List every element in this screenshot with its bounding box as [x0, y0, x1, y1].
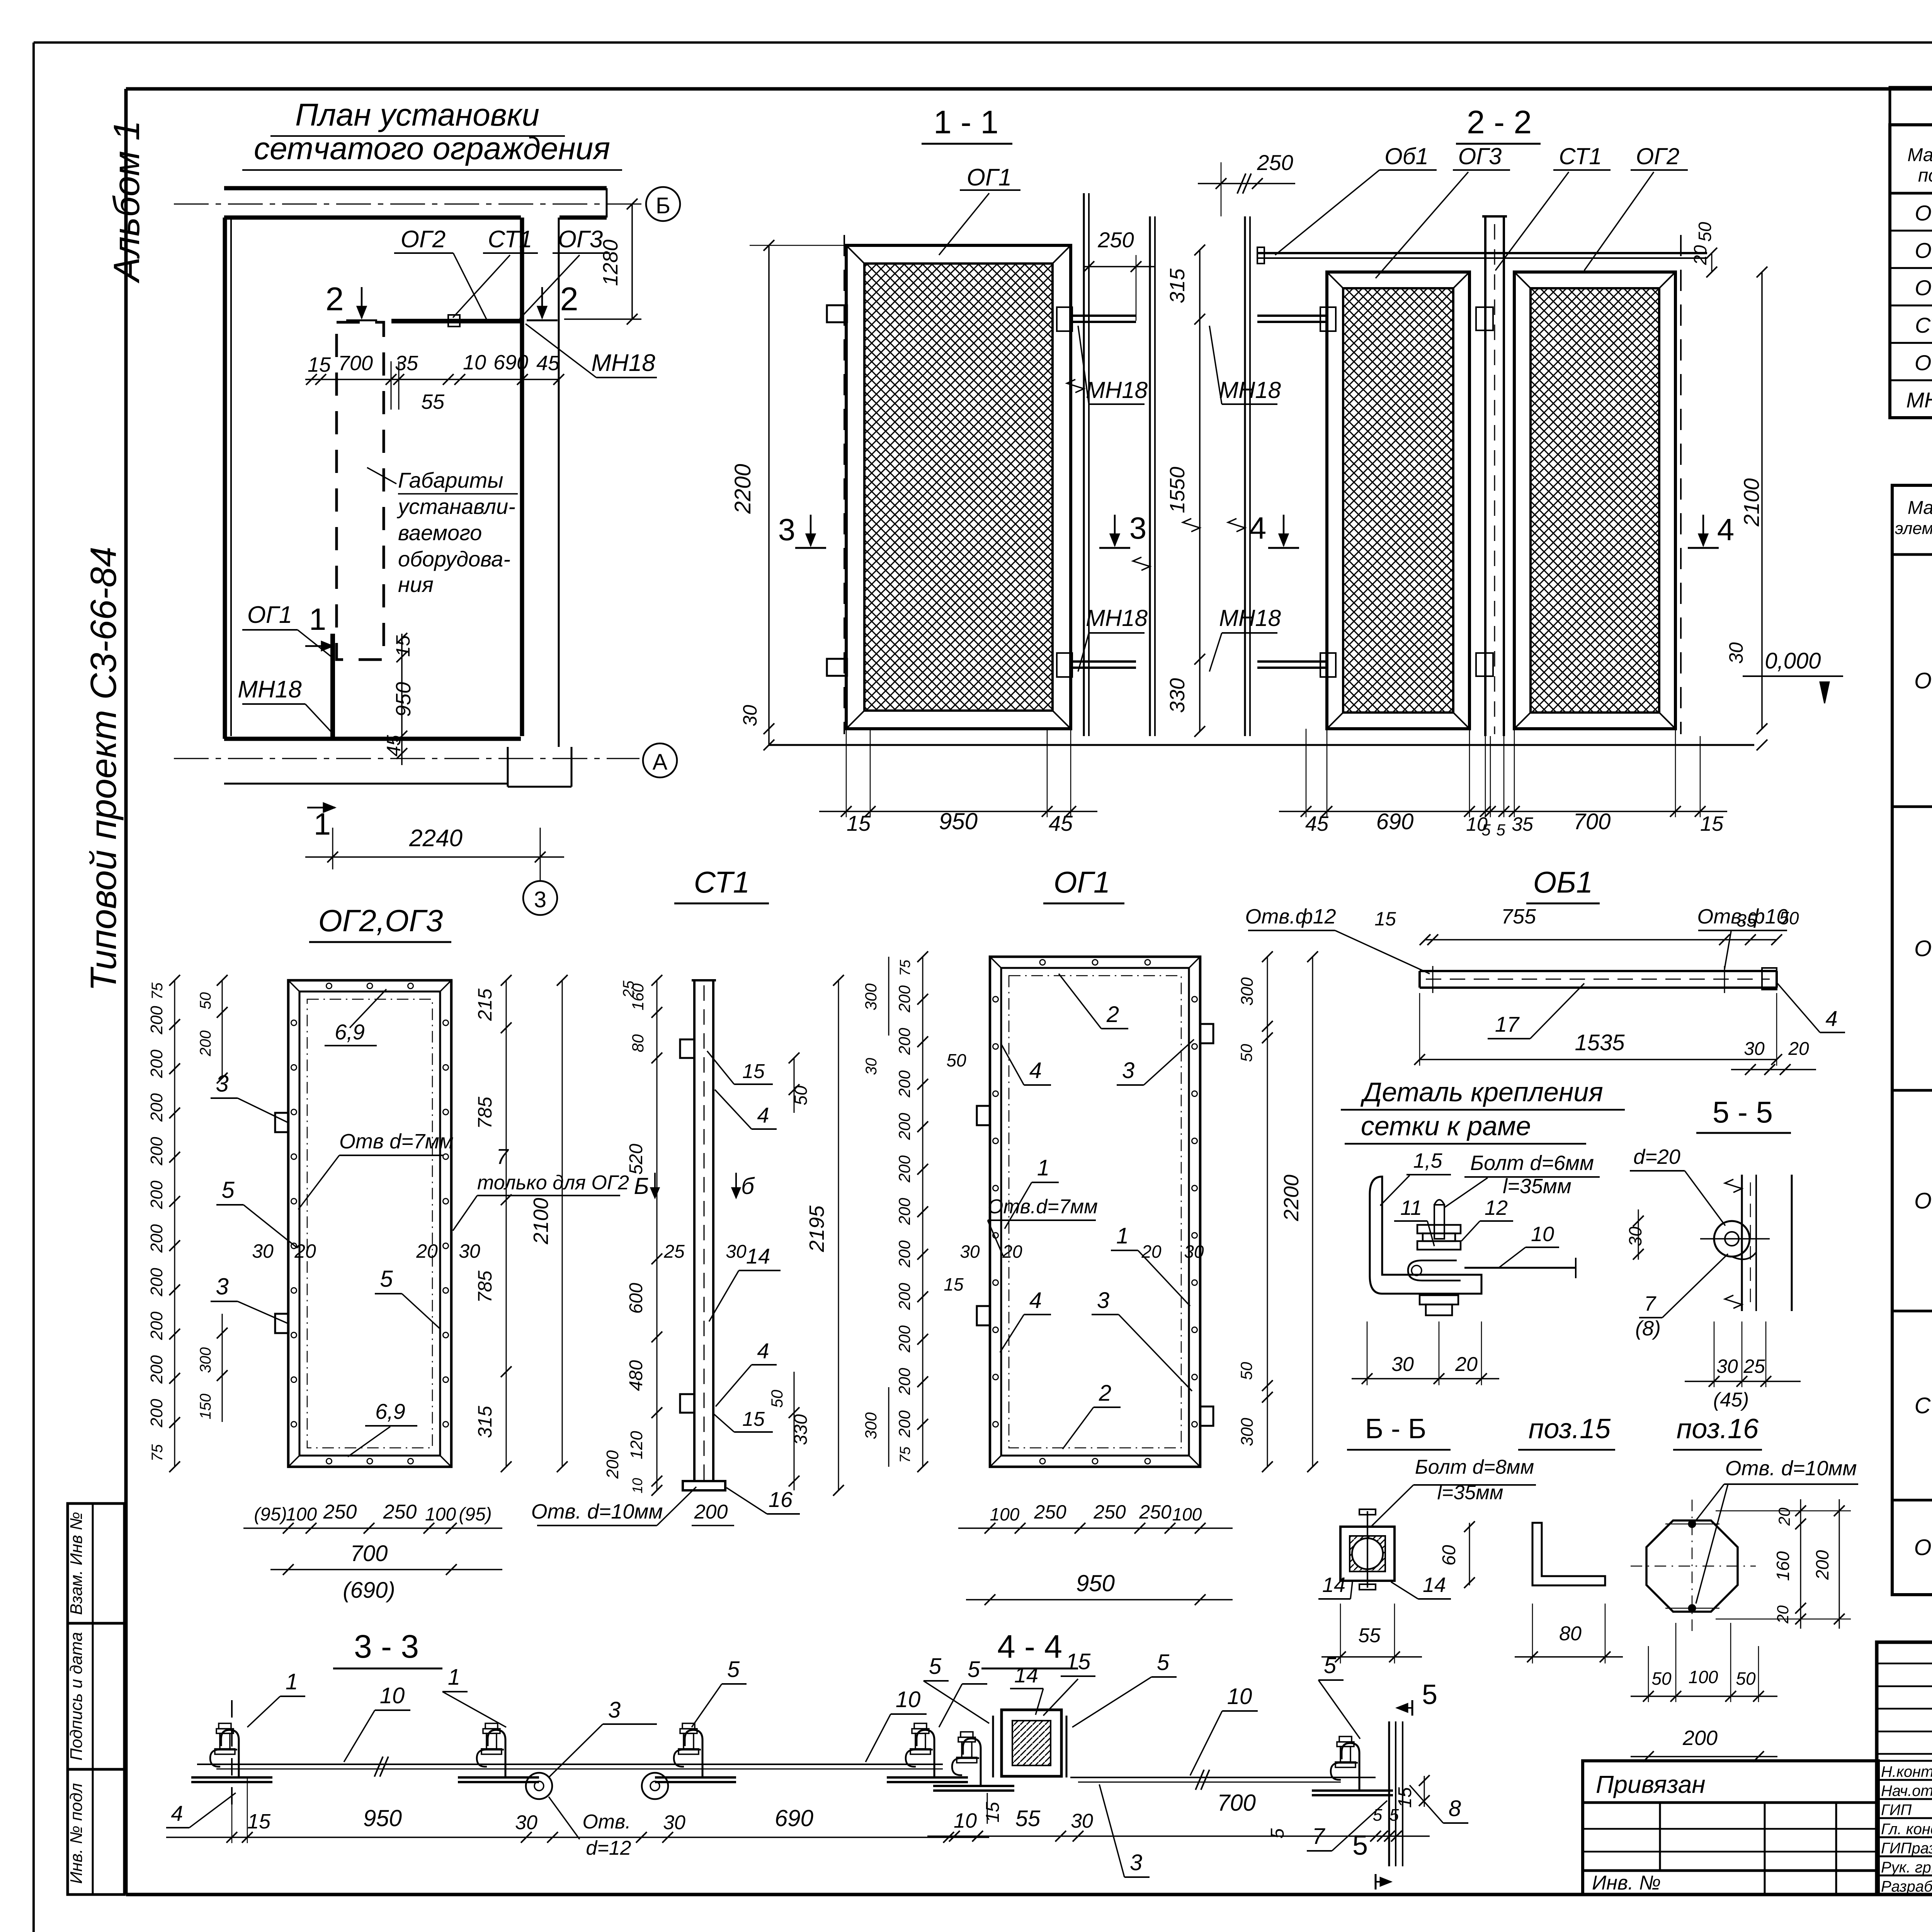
- svg-text:300: 300: [862, 1412, 880, 1439]
- svg-text:200: 200: [1812, 1550, 1832, 1580]
- svg-text:10: 10: [1227, 1684, 1252, 1709]
- svg-text:30: 30: [515, 1811, 537, 1834]
- ОГ1 bottom dims 100 250x3 100 950: [958, 1527, 1233, 1529]
- svg-text:5: 5: [929, 1654, 942, 1679]
- svg-text:ОГ2: ОГ2: [1914, 936, 1932, 961]
- ОБ1 bar body: [1420, 970, 1777, 972]
- svg-text:2200: 2200: [1280, 1175, 1303, 1221]
- svg-text:(690): (690): [343, 1578, 395, 1603]
- svg-text:МН18: МН18: [1219, 377, 1281, 403]
- svg-text:100: 100: [1689, 1667, 1718, 1687]
- svg-text:2100: 2100: [1739, 478, 1764, 527]
- svg-text:5 - 5: 5 - 5: [1713, 1095, 1773, 1129]
- svg-text:20: 20: [1690, 245, 1710, 265]
- svg-text:Гл. констр: Гл. констр: [1881, 1821, 1932, 1838]
- svg-text:Б: Б: [656, 193, 670, 218]
- svg-text:Отв.ф12: Отв.ф12: [1245, 905, 1336, 928]
- svg-text:ния: ния: [398, 572, 434, 597]
- title block upper small rows: [1877, 1663, 1932, 1665]
- svg-text:15: 15: [983, 1802, 1003, 1823]
- bottom dims 15 950 45 (1-1): [846, 729, 847, 817]
- svg-text:5: 5: [1157, 1650, 1170, 1675]
- svg-text:ОГ1: ОГ1: [1915, 201, 1932, 225]
- svg-text:Н.контр.: Н.контр.: [1881, 1764, 1932, 1781]
- svg-text:50: 50: [197, 992, 214, 1010]
- svg-text:Инв. № подл: Инв. № подл: [67, 1783, 86, 1884]
- svg-text:5: 5: [221, 1177, 235, 1203]
- svg-text:Отв d=7мм: Отв d=7мм: [339, 1130, 454, 1153]
- svg-text:5: 5: [1352, 1830, 1368, 1861]
- svg-text:МН18: МН18: [591, 350, 655, 376]
- svg-text:200: 200: [1682, 1726, 1718, 1750]
- svg-text:8: 8: [1449, 1796, 1461, 1821]
- svg-text:(95): (95): [459, 1504, 492, 1525]
- svg-text:1280: 1280: [599, 240, 622, 286]
- svg-text:200: 200: [147, 1224, 166, 1253]
- svg-text:30: 30: [739, 705, 761, 726]
- svg-text:215: 215: [474, 988, 496, 1021]
- table 1 title box: [1890, 87, 1932, 125]
- clamp middle 3-3: [458, 1723, 539, 1782]
- svg-text:Габариты: Габариты: [398, 468, 503, 492]
- detail: lower nuts: [1420, 1295, 1458, 1304]
- svg-text:б: б: [741, 1173, 755, 1199]
- svg-text:1: 1: [1037, 1155, 1049, 1180]
- svg-text:СТ1: СТ1: [694, 865, 750, 899]
- plan: dim 2240: [332, 828, 333, 869]
- svg-text:ОГ1: ОГ1: [1914, 668, 1932, 693]
- 4-4 wire: [1070, 1777, 1376, 1778]
- svg-text:200: 200: [694, 1501, 728, 1523]
- svg-text:ОГ3: ОГ3: [1458, 143, 1502, 169]
- svg-text:6,9: 6,9: [335, 1020, 365, 1044]
- svg-text:480: 480: [626, 1360, 646, 1391]
- svg-text:200: 200: [147, 1399, 166, 1428]
- Б-Б dim 55: [1321, 1656, 1422, 1658]
- plan: section mark 2 right: [541, 287, 543, 318]
- svg-text:ОГ2: ОГ2: [1636, 143, 1680, 169]
- svg-text:14: 14: [1322, 1573, 1345, 1597]
- svg-text:250: 250: [1034, 1501, 1066, 1523]
- table 2 grid: [1892, 485, 1932, 1595]
- svg-text:16: 16: [769, 1487, 793, 1512]
- plan: section marks 1: [305, 645, 333, 647]
- 5-5 hook circle: [1714, 1221, 1750, 1257]
- svg-text:200: 200: [895, 1325, 913, 1353]
- svg-text:30: 30: [726, 1242, 747, 1262]
- svg-text:200: 200: [147, 1049, 166, 1078]
- svg-text:(45): (45): [1713, 1389, 1749, 1411]
- svg-text:2: 2: [1099, 1381, 1111, 1406]
- svg-text:10: 10: [380, 1683, 405, 1708]
- dashed edge line left of panel: [844, 235, 845, 734]
- svg-text:ваемого: ваемого: [398, 520, 482, 545]
- svg-text:Нач.отд: Нач.отд: [1881, 1782, 1932, 1799]
- svg-text:50: 50: [1651, 1668, 1672, 1689]
- svg-text:2240: 2240: [409, 825, 463, 852]
- svg-text:30: 30: [663, 1811, 685, 1834]
- svg-text:20: 20: [1788, 1039, 1809, 1059]
- svg-text:Подпись и дата: Подпись и дата: [67, 1632, 86, 1761]
- clamp right end 3-3: [887, 1723, 968, 1782]
- svg-text:только для ОГ2: только для ОГ2: [477, 1172, 629, 1194]
- svg-text:14: 14: [746, 1244, 770, 1268]
- svg-text:Деталь крепления: Деталь крепления: [1360, 1077, 1603, 1107]
- svg-text:4: 4: [1029, 1058, 1042, 1083]
- svg-text:10: 10: [1531, 1223, 1554, 1246]
- frame ОГ2/ОГ3: [288, 980, 451, 1467]
- svg-text:5: 5: [1481, 821, 1491, 839]
- svg-text:2 - 2: 2 - 2: [1467, 104, 1532, 140]
- plan: dim chain top 15 700 35 10 690 45: [305, 379, 559, 380]
- svg-text:СТ1: СТ1: [1915, 313, 1932, 337]
- svg-text:l=35мм: l=35мм: [1503, 1175, 1571, 1198]
- svg-text:15: 15: [1395, 1787, 1415, 1808]
- svg-text:755: 755: [1501, 905, 1536, 928]
- svg-text:200: 200: [895, 1282, 913, 1310]
- svg-text:4: 4: [1249, 511, 1267, 545]
- 4-4 post edge verticals: [1388, 1721, 1390, 1866]
- svg-text:250: 250: [383, 1501, 417, 1523]
- svg-text:МН18: МН18: [1086, 377, 1148, 403]
- svg-text:2200: 2200: [730, 464, 755, 514]
- svg-text:1550: 1550: [1166, 467, 1189, 513]
- svg-text:5: 5: [1267, 1828, 1288, 1838]
- svg-text:СТ1: СТ1: [488, 226, 532, 253]
- svg-text:30: 30: [1716, 1355, 1738, 1377]
- outer thin sheet border: [34, 41, 1932, 44]
- plan: fence line ОГ2-СТ1-ОГ3: [391, 319, 522, 323]
- svg-text:сетки к раме: сетки к раме: [1361, 1111, 1531, 1141]
- svg-text:200: 200: [147, 1006, 166, 1035]
- svg-text:3: 3: [1097, 1288, 1109, 1313]
- svg-text:А: А: [653, 750, 668, 775]
- svg-text:5: 5: [1496, 821, 1505, 839]
- svg-text:35: 35: [1736, 910, 1757, 930]
- svg-text:30: 30: [1625, 1226, 1645, 1247]
- svg-text:250: 250: [323, 1501, 357, 1523]
- ОГ1 left dim chain: [922, 957, 923, 1467]
- svg-text:2: 2: [1106, 1002, 1119, 1027]
- svg-text:поз.16: поз.16: [1677, 1413, 1759, 1444]
- svg-text:60: 60: [1439, 1545, 1459, 1566]
- svg-text:Б - Б: Б - Б: [1365, 1413, 1426, 1444]
- 4-4 section marks 5: [1412, 1700, 1413, 1716]
- svg-text:200: 200: [895, 1155, 913, 1183]
- plan: dim 1280: [631, 204, 633, 319]
- svg-text:5: 5: [1389, 1806, 1399, 1825]
- svg-text:300: 300: [862, 983, 880, 1010]
- detail: wire curl hook: [1408, 1260, 1461, 1281]
- svg-text:План установки: План установки: [295, 97, 539, 133]
- Б-Б square washer with bolt: [1340, 1527, 1395, 1581]
- svg-text:950: 950: [392, 682, 415, 717]
- svg-text:315: 315: [474, 1406, 496, 1438]
- svg-text:75: 75: [897, 1446, 913, 1463]
- bottom dims (2-2) 45 690 10 5 5 35 700 15: [1306, 729, 1307, 817]
- svg-text:Об1: Об1: [1384, 143, 1429, 169]
- svg-text:поз.: поз.: [1918, 165, 1932, 186]
- svg-text:35: 35: [1512, 813, 1533, 835]
- svg-text:200: 200: [147, 1311, 166, 1340]
- svg-text:1: 1: [286, 1669, 298, 1694]
- mounting brackets МН18 on panel 1-1: [827, 305, 847, 322]
- svg-text:50: 50: [1736, 1668, 1756, 1689]
- svg-text:2: 2: [560, 281, 578, 318]
- svg-text:7: 7: [496, 1144, 509, 1168]
- svg-text:МН18: МН18: [1219, 605, 1281, 631]
- dashed edge right of ОГ2: [1680, 235, 1682, 734]
- svg-text:устанавли-: устанавли-: [396, 494, 515, 519]
- svg-text:120: 120: [627, 1431, 646, 1459]
- svg-text:ОГ2: ОГ2: [1915, 238, 1932, 262]
- СТ1 base plate: [683, 1481, 725, 1490]
- СТ1 left dims: [656, 980, 658, 1490]
- svg-text:15: 15: [392, 635, 414, 657]
- svg-text:690: 690: [1376, 809, 1414, 834]
- left dim 2200 (1-1): [768, 245, 770, 745]
- svg-text:15: 15: [247, 1810, 271, 1833]
- detail dims 30 20: [1352, 1378, 1499, 1379]
- ground line under sections: [769, 744, 1754, 746]
- left stamp column boxes: [68, 1503, 124, 1895]
- right dims 50 20 2100 30 (2-2): [1711, 253, 1713, 272]
- svg-text:Привязан: Привязан: [1596, 1770, 1706, 1798]
- svg-text:2100: 2100: [529, 1198, 553, 1245]
- svg-text:12: 12: [1485, 1196, 1508, 1219]
- svg-text:Отв.d=7мм: Отв.d=7мм: [988, 1196, 1098, 1218]
- svg-text:Б: Б: [634, 1173, 649, 1199]
- 4-4 side plates: [992, 1716, 994, 1777]
- svg-text:10: 10: [463, 351, 486, 374]
- svg-text:d=20: d=20: [1633, 1145, 1680, 1168]
- svg-text:700: 700: [338, 352, 373, 375]
- svg-text:2: 2: [325, 281, 344, 318]
- section marks 3 (1-1): [810, 515, 812, 546]
- plan: axis А: [174, 758, 639, 759]
- Привязан block: [1583, 1761, 1878, 1895]
- svg-text:50: 50: [1237, 1362, 1255, 1380]
- svg-text:4: 4: [757, 1338, 769, 1363]
- svg-text:250: 250: [1139, 1501, 1172, 1523]
- 4-4 dims: [927, 1835, 1430, 1837]
- svg-text:Разраб.: Разраб.: [1881, 1878, 1932, 1895]
- svg-text:5: 5: [1422, 1679, 1437, 1710]
- ОГ1 right dims 300 50 2200 50 300: [1267, 957, 1268, 1467]
- svg-text:4: 4: [757, 1103, 769, 1127]
- wall lines right of panel 1-1: [1083, 193, 1085, 736]
- svg-text:15: 15: [308, 353, 331, 376]
- panel ОГ2 mesh (section 2-2): [1514, 272, 1675, 729]
- svg-text:10: 10: [629, 1478, 645, 1493]
- svg-text:3: 3: [1122, 1058, 1134, 1083]
- svg-text:700: 700: [1217, 1790, 1256, 1816]
- svg-text:100: 100: [286, 1504, 317, 1525]
- svg-text:50: 50: [768, 1389, 786, 1408]
- detail: angle bracket: [1370, 1177, 1481, 1294]
- svg-text:950: 950: [363, 1805, 402, 1831]
- svg-text:80: 80: [1559, 1622, 1582, 1645]
- 3-3 hinge circles: [526, 1773, 552, 1799]
- panel ОГ1 mesh (section 1-1): [846, 245, 1071, 729]
- svg-text:Болт d=8мм: Болт d=8мм: [1415, 1456, 1534, 1478]
- panel ОГ3 mesh (section 2-2): [1327, 272, 1469, 729]
- svg-text:20: 20: [1775, 1507, 1793, 1526]
- svg-text:(8): (8): [1635, 1317, 1661, 1340]
- right dims 315 1550 330 (1-1): [1199, 250, 1201, 731]
- plan: top wall: [224, 186, 607, 190]
- svg-text:Рук. гр.: Рук. гр.: [1881, 1859, 1932, 1876]
- svg-text:элемента: элемента: [1895, 519, 1932, 538]
- svg-text:250: 250: [1257, 150, 1293, 175]
- svg-text:МН18: МН18: [1086, 605, 1148, 631]
- СТ1 tabs: [680, 1039, 694, 1058]
- поз.16 right dims 20 160 200 20: [1716, 1510, 1851, 1512]
- svg-text:Взам. Инв №: Взам. Инв №: [67, 1512, 86, 1615]
- svg-text:ОГ2: ОГ2: [401, 226, 446, 253]
- svg-text:3: 3: [1130, 1850, 1142, 1875]
- svg-text:ОГ2,ОГ3: ОГ2,ОГ3: [318, 903, 443, 938]
- svg-text:250: 250: [1093, 1501, 1126, 1523]
- 4-4 square post section: [1002, 1710, 1061, 1776]
- plan: section mark 2 left: [361, 287, 363, 318]
- svg-text:100: 100: [1172, 1504, 1202, 1524]
- svg-text:300: 300: [1238, 1418, 1257, 1446]
- svg-text:ОГ3: ОГ3: [1915, 276, 1932, 300]
- svg-text:330: 330: [1166, 678, 1189, 713]
- svg-text:4 - 4: 4 - 4: [997, 1628, 1062, 1665]
- svg-text:3: 3: [778, 512, 796, 547]
- svg-text:600: 600: [626, 1283, 646, 1314]
- svg-text:520: 520: [626, 1144, 646, 1175]
- brackets МН18 (2-2): [1257, 315, 1327, 317]
- svg-text:50: 50: [1237, 1044, 1255, 1062]
- svg-text:МН18: МН18: [1906, 388, 1932, 412]
- svg-text:15: 15: [742, 1408, 765, 1430]
- inner thick drawing frame: [126, 87, 1932, 91]
- Б-Б section marks on СТ1: [656, 1188, 657, 1189]
- ОГ2 ОГ3 left dim chains: [174, 980, 175, 1467]
- svg-text:30: 30: [1725, 642, 1747, 664]
- svg-text:200: 200: [147, 1180, 166, 1209]
- svg-text:Типовой проект С3-66-84: Типовой проект С3-66-84: [83, 547, 124, 992]
- svg-text:20: 20: [1002, 1242, 1022, 1262]
- svg-text:200: 200: [895, 1240, 913, 1268]
- svg-text:20: 20: [294, 1240, 316, 1262]
- frame ОГ1: [990, 957, 1200, 1467]
- svg-text:4: 4: [1825, 1006, 1837, 1031]
- svg-text:1,5: 1,5: [1413, 1149, 1442, 1172]
- svg-text:100: 100: [990, 1504, 1020, 1524]
- svg-text:20: 20: [1455, 1353, 1478, 1376]
- svg-text:Марка: Марка: [1908, 498, 1932, 518]
- clamp right 4-4: [1312, 1736, 1393, 1795]
- svg-text:3: 3: [1129, 511, 1147, 545]
- svg-text:200: 200: [895, 1410, 913, 1438]
- svg-text:1: 1: [314, 807, 331, 841]
- svg-text:200: 200: [603, 1450, 622, 1479]
- svg-text:сетчатого ограждения: сетчатого ограждения: [254, 131, 610, 166]
- svg-text:Отв. d=10мм: Отв. d=10мм: [1725, 1457, 1857, 1480]
- svg-text:5: 5: [968, 1657, 980, 1682]
- svg-text:45: 45: [1305, 812, 1329, 835]
- svg-text:75: 75: [149, 982, 166, 1000]
- svg-text:45: 45: [383, 735, 405, 757]
- svg-text:6,9: 6,9: [375, 1399, 405, 1423]
- svg-text:20: 20: [1141, 1242, 1162, 1262]
- поз.15 L angle: [1532, 1523, 1605, 1585]
- svg-text:30: 30: [1391, 1353, 1414, 1376]
- svg-text:поз.15: поз.15: [1529, 1413, 1611, 1444]
- title block outer box: [1877, 1642, 1932, 1895]
- svg-text:100: 100: [425, 1504, 456, 1525]
- svg-text:15: 15: [944, 1274, 964, 1294]
- svg-text:ОГ1: ОГ1: [967, 164, 1012, 191]
- СТ1 right dims 2195 330 50: [838, 980, 839, 1490]
- plan: bottom wall: [224, 737, 521, 741]
- svg-text:3: 3: [216, 1274, 228, 1299]
- svg-text:30: 30: [459, 1240, 480, 1262]
- svg-text:150: 150: [197, 1394, 214, 1420]
- svg-text:50: 50: [1779, 908, 1799, 928]
- svg-text:950: 950: [939, 808, 978, 834]
- svg-text:ОГ3: ОГ3: [558, 226, 603, 253]
- svg-text:75: 75: [149, 1444, 166, 1461]
- svg-text:3: 3: [608, 1697, 621, 1723]
- plan: fence ОГ1 vertical: [330, 634, 335, 739]
- svg-text:75: 75: [897, 959, 913, 976]
- svg-text:15: 15: [1374, 908, 1396, 930]
- svg-text:200: 200: [197, 1031, 214, 1057]
- svg-text:1: 1: [309, 602, 327, 636]
- СТ1 post between panels (2-2): [1484, 216, 1486, 736]
- clamp left 4-4: [933, 1732, 1014, 1791]
- svg-text:ГИПразд.: ГИПразд.: [1881, 1840, 1932, 1857]
- svg-text:ОГ1: ОГ1: [247, 602, 292, 628]
- wall lines left of 2-2: [1244, 216, 1246, 736]
- svg-text:50: 50: [1695, 222, 1715, 242]
- svg-text:30: 30: [1071, 1810, 1093, 1832]
- svg-text:1: 1: [1116, 1223, 1129, 1248]
- svg-text:15: 15: [742, 1060, 765, 1083]
- svg-text:5: 5: [1324, 1653, 1337, 1678]
- svg-text:200: 200: [895, 1112, 913, 1140]
- 3-3 mesh wire line: [197, 1764, 943, 1765]
- svg-text:55: 55: [1015, 1806, 1041, 1831]
- svg-text:d=12: d=12: [586, 1837, 631, 1859]
- svg-text:50: 50: [946, 1050, 966, 1070]
- plan: equipment dashed outline: [337, 322, 384, 660]
- 5-5 post bars: [1741, 1175, 1743, 1311]
- svg-text:5: 5: [727, 1657, 740, 1682]
- svg-text:Марка: Марка: [1907, 145, 1932, 165]
- svg-text:25: 25: [620, 980, 637, 998]
- svg-text:ГИП: ГИП: [1881, 1802, 1912, 1819]
- svg-text:10: 10: [954, 1809, 977, 1832]
- svg-text:7: 7: [1644, 1292, 1656, 1315]
- svg-text:Об1: Об1: [1915, 350, 1932, 375]
- svg-text:30: 30: [1744, 1039, 1765, 1059]
- title block signature rows: [1877, 1760, 1932, 1762]
- svg-text:200: 200: [147, 1355, 166, 1384]
- ОБ1 right end detail 4: [1762, 968, 1777, 990]
- svg-text:Отв.: Отв.: [582, 1811, 631, 1833]
- svg-text:30: 30: [960, 1242, 980, 1262]
- svg-text:200: 200: [147, 1093, 166, 1122]
- plan: column axis 3 circle: [540, 869, 541, 881]
- detail: mesh wire to right: [1464, 1267, 1576, 1269]
- table 1 grid: [1890, 125, 1932, 418]
